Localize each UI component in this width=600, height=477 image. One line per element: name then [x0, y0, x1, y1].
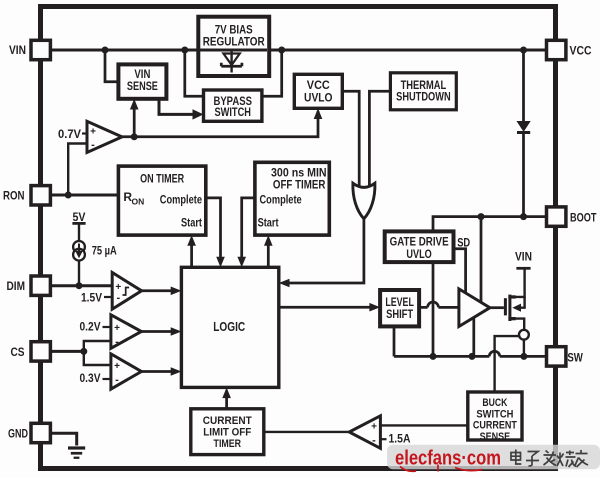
svg-text:Complete: Complete: [160, 193, 202, 207]
gate driver buffer: [459, 289, 490, 327]
wire VIN rail through regulator: [200, 49, 267, 52]
junction node on RON wire: [65, 192, 72, 199]
label pin GND: [8, 427, 28, 441]
svg-text:VIN: VIN: [134, 69, 150, 81]
svg-text:DIM: DIM: [7, 279, 26, 293]
block 7V BIAS REGULATOR: [198, 17, 269, 76]
wire OR gate output to LOGIC (arrow left): [279, 219, 364, 287]
svg-text:VIN: VIN: [9, 43, 26, 57]
pin SW: [547, 347, 566, 366]
svg-text:RON: RON: [3, 189, 25, 203]
block 300 ns MIN OFF TIMER: [255, 162, 329, 235]
svg-text:-: -: [91, 139, 95, 151]
svg-text:BOOT: BOOT: [570, 211, 597, 225]
svg-text:5V: 5V: [73, 210, 86, 224]
wire BUCK SWITCH CURRENT SENSE to 1.5A comparator: [380, 424, 467, 426]
wire BYPASS SWITCH output to VCC rail: [262, 50, 282, 96]
wire gate driver bottom to SW rail: [472, 318, 475, 357]
wire VCC UVLO output down to OR gate: [342, 91, 359, 189]
label 75 uA: [92, 243, 117, 257]
wire CURRENT LIMIT OFF TIMER to LOGIC (arrow up): [222, 387, 231, 408]
wire sense tap to BUCK SWITCH CURRENT SENSE: [495, 336, 520, 392]
svg-text:0.2V: 0.2V: [80, 320, 101, 334]
pin VCC: [547, 40, 566, 59]
wire DIM pin to 1.5V comparator: [50, 284, 112, 287]
svg-text:SHIFT: SHIFT: [386, 309, 413, 321]
wire VCC rail branch down to diode: [522, 50, 525, 217]
label pin VCC: [570, 44, 592, 58]
svg-text:75 µA: 75 µA: [92, 243, 117, 257]
label pin DIM: [7, 279, 26, 293]
wire BOOT to gate driver top: [480, 217, 483, 302]
comparator 0.2V: [111, 315, 141, 349]
block BUCK SWITCH CURRENT SENSE: [468, 392, 522, 443]
zener diode inside 7V bias regulator: [221, 50, 242, 73]
wire LEVEL SHIFT output to gate driver with hop: [419, 302, 459, 307]
wire CS node to comparator inputs: [84, 341, 111, 365]
pin DIM: [31, 276, 50, 295]
current source 75 uA: [73, 241, 85, 261]
svg-text:+: +: [90, 127, 96, 138]
svg-text:+: +: [114, 361, 120, 372]
watermark band: [387, 445, 600, 469]
svg-text:ON: ON: [132, 197, 145, 207]
svg-text:ON TIMER: ON TIMER: [140, 171, 184, 185]
transistor buck PFET: [504, 268, 525, 330]
wire OFF TIMER Complete to LOGIC (arrow down): [237, 198, 255, 267]
wire GATE DRIVE UVLO bottom to SW rail: [432, 262, 435, 356]
wire SD from GATE DRIVE UVLO to gate driver: [454, 249, 466, 295]
junction node SW rail at x=433: [430, 353, 437, 360]
svg-text:CURRENT: CURRENT: [203, 415, 252, 427]
junction node on VCC rail at x=523.5: [520, 47, 527, 54]
current sense element: [519, 330, 529, 340]
wire current source to DIM node: [78, 260, 80, 285]
svg-text:1.5A: 1.5A: [389, 432, 411, 446]
svg-text:VCC: VCC: [570, 44, 592, 58]
pin BOOT: [547, 207, 566, 226]
svg-text:Start: Start: [258, 216, 279, 230]
svg-text:SW: SW: [567, 350, 583, 364]
watermark Chinese characters: [511, 450, 588, 468]
svg-text:LEVEL: LEVEL: [385, 297, 414, 309]
svg-text:-: -: [372, 434, 376, 446]
wire 0.7V comparator output to VCC UVLO (arrow up): [122, 108, 322, 137]
pin RON: [31, 186, 50, 205]
svg-text:BUCK: BUCK: [482, 397, 507, 409]
svg-text:elecfans·com: elecfans·com: [395, 448, 501, 470]
junction node on comparator output at x=134.2: [131, 133, 138, 140]
pin GND: [31, 423, 50, 442]
junction node SW rail at x=472: [469, 353, 476, 360]
label 0.3V: [80, 371, 111, 385]
svg-text:0.7V: 0.7V: [58, 127, 81, 141]
svg-text:+: +: [371, 422, 377, 433]
wire LOGIC output to LEVEL SHIFT (arrow right): [279, 303, 380, 312]
svg-text:VCC: VCC: [307, 80, 330, 92]
label pin VIN: [9, 43, 26, 57]
svg-text:-: -: [116, 292, 120, 304]
junction node BOOT rail at x=481: [478, 213, 485, 220]
wire LEVEL SHIFT bottom to SW rail: [393, 326, 396, 356]
svg-text:0.3V: 0.3V: [80, 371, 101, 385]
block THERMAL SHUTDOWN: [390, 73, 456, 110]
OR gate: [353, 183, 375, 219]
label 0.2V: [80, 320, 111, 334]
wire 1.5V comparator output to LOGIC (arrow right): [142, 287, 182, 296]
svg-text:UVLO: UVLO: [406, 249, 431, 261]
junction node SW rail at x=523.9: [520, 353, 527, 360]
svg-text:UVLO: UVLO: [304, 93, 333, 105]
block CURRENT LIMIT OFF TIMER: [191, 409, 264, 455]
comparator 1.5V (with hysteresis): [112, 273, 141, 310]
wire 0.7V comparator inverting input to RON node: [68, 144, 87, 196]
svg-text:SHUTDOWN: SHUTDOWN: [396, 92, 451, 104]
ground symbol: [68, 446, 85, 459]
wire GND pin to ground: [50, 433, 77, 445]
junction node BOOT rail at x=523.5: [520, 213, 527, 220]
wire THERMAL SHUTDOWN output down to OR gate: [369, 91, 390, 189]
svg-text:-: -: [115, 336, 119, 348]
comparator 0.7V: [87, 121, 122, 152]
wire VIN SENSE output to BYPASS SWITCH (arrow right): [159, 99, 204, 120]
label 5V supply: [72, 210, 85, 241]
svg-text:LOGIC: LOGIC: [213, 320, 245, 334]
comparator 1.5A: [349, 416, 380, 449]
svg-text:SWITCH: SWITCH: [214, 107, 251, 119]
block GATE DRIVE UVLO: [385, 231, 454, 262]
wire LOGIC to ON TIMER Start (arrow up): [187, 235, 196, 267]
svg-text:+: +: [114, 323, 120, 334]
svg-text:BYPASS: BYPASS: [213, 96, 252, 108]
wire BOOT rail: [433, 217, 546, 232]
svg-text:GND: GND: [8, 427, 28, 441]
label VIN above MOSFET: [515, 250, 532, 269]
pin CS: [31, 342, 50, 361]
label pin SW: [567, 350, 583, 364]
svg-text:1.5V: 1.5V: [81, 291, 102, 305]
wire 0.2V comparator output to LOGIC (arrow right): [141, 327, 181, 336]
svg-text:OFF TIMER: OFF TIMER: [273, 177, 326, 191]
wire sense element to SW rail: [523, 340, 525, 357]
label SD: [457, 235, 470, 249]
wire gate driver output to MOSFET gate: [490, 306, 504, 309]
wire VIN rail: [50, 49, 546, 52]
svg-text:LIMIT OFF: LIMIT OFF: [203, 427, 251, 439]
label pin CS: [11, 345, 25, 359]
comparator 0.3V: [111, 354, 141, 389]
svg-text:VIN: VIN: [515, 250, 532, 264]
wire VIN rail to VIN SENSE input: [105, 50, 118, 82]
watermark elecfans.com: [395, 448, 501, 472]
svg-text:-: -: [115, 374, 119, 386]
svg-text:SWITCH: SWITCH: [476, 408, 513, 420]
wire 0.3V comparator output to LOGIC (arrow right): [141, 367, 181, 376]
label pin RON: [3, 189, 25, 203]
block VCC UVLO: [294, 74, 342, 108]
wire VIN rail to BYPASS SWITCH input: [185, 50, 204, 96]
junction node on VIN rail at x=105: [102, 47, 109, 54]
svg-text:Start: Start: [181, 216, 202, 230]
block VIN SENSE: [118, 64, 166, 98]
wire LOGIC to OFF TIMER Start (arrow up): [264, 235, 273, 267]
wire ON TIMER Complete to LOGIC (arrow down): [206, 198, 225, 267]
svg-text:REGULATOR: REGULATOR: [203, 34, 265, 48]
wire 1.5A comparator output to CURRENT LIMIT OFF TIMER: [264, 431, 349, 433]
svg-text:THERMAL: THERMAL: [401, 80, 447, 92]
label pin BOOT: [570, 211, 597, 225]
block BYPASS SWITCH: [204, 90, 262, 121]
pin VIN: [31, 40, 50, 59]
wire branch up into VIN SENSE (arrow up): [130, 99, 139, 137]
label 1.5A: [380, 432, 410, 446]
svg-text:GATE DRIVE: GATE DRIVE: [390, 237, 449, 249]
block LEVEL SHIFT: [380, 290, 419, 326]
junction node on DIM wire: [76, 282, 83, 289]
wire RON pin to ON TIMER: [50, 194, 118, 197]
block LOGIC: [181, 267, 278, 387]
diode VCC to BOOT: [517, 122, 530, 135]
svg-text:SENSE: SENSE: [127, 81, 158, 93]
junction node on CS wire: [80, 348, 87, 355]
wire SW rail with hop over sense line: [394, 351, 546, 356]
wire CS pin to node: [50, 350, 84, 353]
svg-text:CS: CS: [11, 345, 25, 359]
svg-text:TIMER: TIMER: [214, 438, 242, 450]
block ON TIMER: [118, 166, 205, 235]
junction node on rail at x=281.7: [278, 47, 285, 54]
label 1.5V: [81, 291, 112, 305]
svg-text:SD: SD: [457, 235, 470, 249]
label 0.7V: [58, 127, 88, 141]
svg-text:SENSE: SENSE: [480, 431, 511, 443]
svg-text:Complete: Complete: [260, 193, 302, 207]
junction node on VIN rail at x=184.8: [181, 47, 188, 54]
